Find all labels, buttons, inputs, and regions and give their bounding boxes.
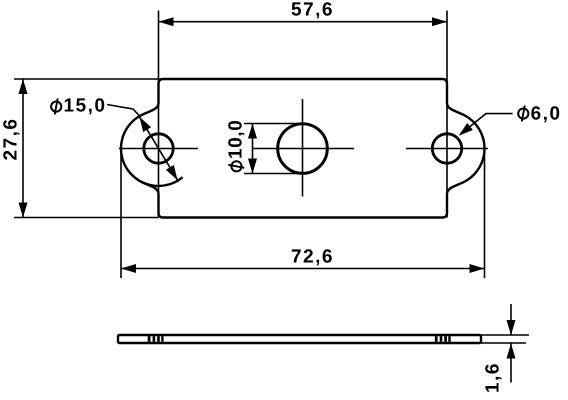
side view plate bar [118, 335, 481, 343]
side view hole tick marks left [148, 336, 151, 342]
label 1,6 (rotated) [485, 364, 501, 392]
left lobe S-curves [140, 103, 159, 194]
right lobe [447, 103, 485, 194]
arrow 72,6 right [470, 264, 485, 273]
arrow 57,6 left [159, 17, 174, 26]
extension line 27,6 bottom [14, 217, 159, 219]
1,6 extension top [481, 334, 529, 336]
hole right ø6 [432, 134, 461, 163]
dim ø10,0 dimension line [252, 124, 254, 174]
leader ø15,0 [107, 105, 141, 118]
label 27,6 (rotated) [3, 120, 19, 160]
extension line 72,6 right [484, 147, 486, 278]
hole left ø6 [144, 134, 173, 163]
arrow ø15 diagonal bottom [166, 165, 178, 180]
left lobe ø15 arc [121, 116, 183, 186]
arrow 1,6 bottom [507, 344, 516, 359]
extension line 72,6 left [120, 147, 122, 278]
hole centre ø10 [278, 124, 328, 174]
dim ø10,0 top extension [244, 123, 303, 125]
arrow ø10 top [248, 124, 257, 139]
arrow 27,6 top [19, 79, 28, 94]
1,6 dim line lower [510, 343, 512, 383]
label 72,6 [292, 249, 332, 265]
arrow ø15 diagonal top [139, 117, 151, 132]
centerline left hole horizontal [119, 148, 198, 150]
extension/centerline vertical left (x=158.5) [158, 11, 160, 218]
ø15 diagonal dimension line [139, 117, 177, 180]
arrow 1,6 top [507, 320, 516, 335]
side view hole tick marks right [435, 336, 438, 342]
centerline centre hole vertical [302, 99, 304, 197]
arrow 27,6 bottom [19, 203, 28, 218]
label 57,6 [292, 2, 332, 18]
arrow ø10 bottom [248, 159, 257, 174]
dim line 57,6 [159, 21, 448, 23]
arrow ø6 leader [459, 123, 473, 136]
extension/centerline vertical right (x=447) [446, 11, 448, 218]
1,6 extension bottom [481, 342, 526, 344]
centerline right hole horizontal [406, 148, 488, 150]
extension line 27,6 top [14, 78, 159, 80]
leader ø6,0 [460, 114, 513, 135]
dim line 72,6 [121, 268, 485, 270]
label ø15,0 [51, 98, 61, 114]
1,6 dim line upper [510, 304, 512, 335]
label ø10,0 (rotated) [228, 121, 244, 171]
plate outline rectangle part [159, 79, 448, 218]
centerline centre hole horizontal [253, 148, 355, 150]
label ø6,0 [518, 105, 528, 121]
dim line 27,6 [22, 79, 24, 218]
arrow 57,6 right [432, 17, 447, 26]
dim ø10,0 bottom extension [244, 173, 303, 175]
arrow 72,6 left [121, 264, 136, 273]
